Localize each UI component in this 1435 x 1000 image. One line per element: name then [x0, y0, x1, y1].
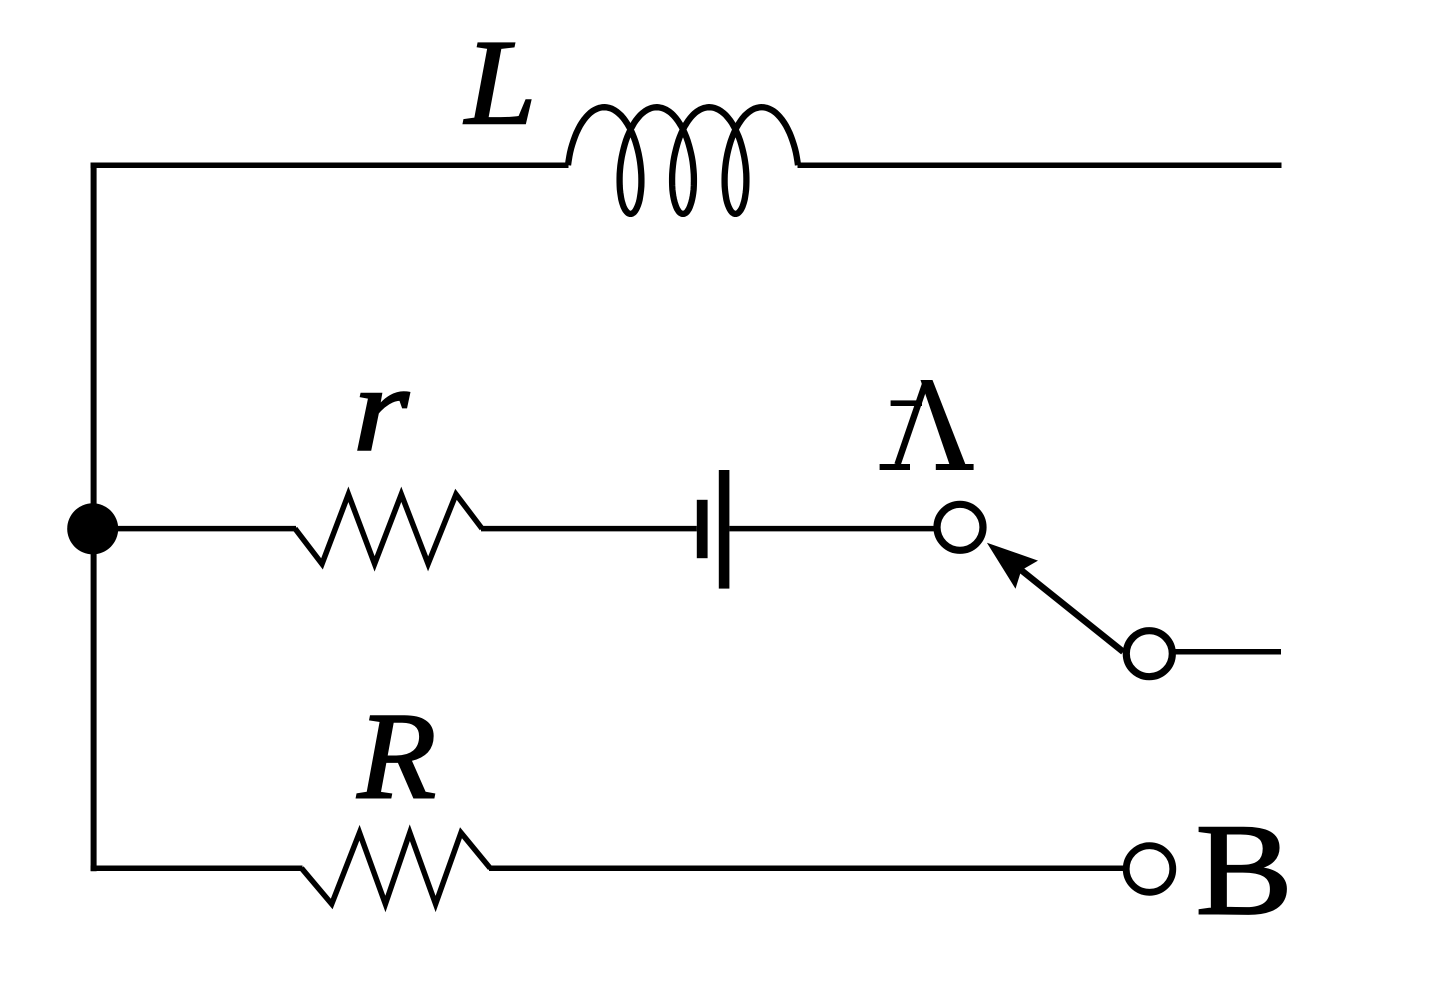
wire resistor r to battery — [481, 526, 697, 532]
wire switch to right — [1172, 649, 1281, 655]
svg-text:R: R — [356, 688, 436, 825]
wire top-right segment — [798, 162, 1282, 168]
inductor L coil — [568, 107, 798, 214]
wire left vertical — [91, 163, 97, 872]
svg-text:r: r — [353, 341, 410, 476]
wire top-left segment — [91, 162, 569, 168]
contact circle A — [937, 504, 983, 550]
label B — [1196, 797, 1293, 942]
svg-text:B: B — [1196, 797, 1293, 942]
switch arrowhead — [987, 543, 1038, 589]
wire bottom-left segment — [91, 865, 303, 871]
wire resistor R to contact B — [489, 865, 1127, 871]
node junction dot — [67, 503, 118, 554]
label A (glyph with high crossbar) — [880, 380, 974, 467]
resistor r — [295, 494, 482, 564]
battery long plate — [719, 470, 730, 589]
label R — [356, 688, 436, 825]
resistor R — [302, 833, 491, 904]
switch arm — [1016, 566, 1123, 652]
switch contact circle — [1126, 631, 1172, 677]
wire node to resistor r — [93, 526, 296, 532]
battery short plate — [697, 500, 708, 558]
label r — [353, 341, 410, 476]
svg-text:L: L — [463, 16, 536, 151]
wire battery to contact A — [729, 526, 934, 532]
label L — [463, 16, 536, 151]
contact circle B — [1126, 846, 1173, 893]
